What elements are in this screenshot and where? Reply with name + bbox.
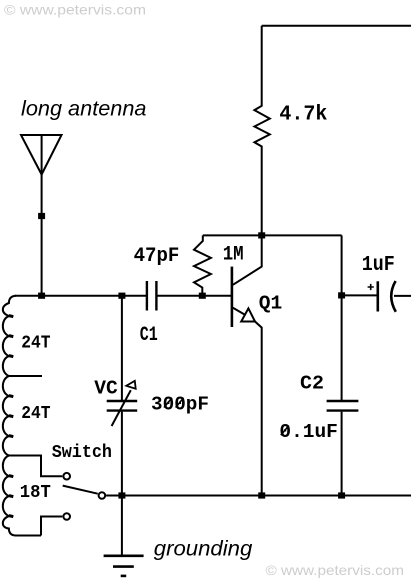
node antenna wire dot bbox=[38, 213, 45, 219]
svg-text:C2: C2 bbox=[300, 372, 324, 394]
svg-text:0.1uF: 0.1uF bbox=[279, 421, 338, 443]
svg-text:1uF: 1uF bbox=[362, 254, 395, 277]
svg-text:© www.petervis.com: © www.petervis.com bbox=[266, 562, 405, 578]
coil L1 bbox=[3, 296, 41, 536]
antenna bbox=[21, 135, 62, 296]
wire top rail bbox=[262, 25, 411, 27]
svg-text:18T: 18T bbox=[20, 483, 51, 503]
node C2 junction bbox=[338, 492, 345, 498]
svg-text:Q1: Q1 bbox=[259, 293, 283, 315]
switch blade bbox=[63, 486, 98, 494]
wire C2 branch vertical bbox=[341, 235, 343, 495]
wire collector node horizontal bbox=[203, 234, 342, 236]
capacitor C2 bbox=[327, 401, 359, 411]
svg-text:300pF: 300pF bbox=[151, 394, 209, 416]
svg-text:© www.petervis.com: © www.petervis.com bbox=[4, 2, 146, 18]
wire C1 to base bbox=[157, 295, 231, 297]
node antenna/coil junction bbox=[38, 293, 45, 299]
node 1M base junction bbox=[199, 293, 206, 299]
transistor Q1 bbox=[232, 235, 262, 495]
switch lower throw terminal bbox=[63, 513, 70, 520]
node ground junction bbox=[118, 492, 125, 498]
capacitor C1 bbox=[147, 281, 157, 311]
wire coil bottom to switch lower throw bbox=[41, 517, 62, 536]
node 1uF junction bbox=[338, 292, 345, 298]
resistor R1 4.7k bbox=[254, 26, 269, 236]
capacitor C3 1uF electrolytic bbox=[342, 281, 411, 312]
ground bbox=[104, 496, 144, 576]
wire tap B to switch upper throw bbox=[9, 456, 62, 477]
node emitter junction bbox=[258, 492, 265, 498]
node collector junction bbox=[258, 232, 265, 238]
wire bottom rail bbox=[106, 495, 411, 497]
switch common terminal bbox=[99, 492, 106, 499]
svg-text:4.7k: 4.7k bbox=[279, 104, 327, 127]
svg-text:long antenna: long antenna bbox=[21, 96, 147, 120]
resistor R2 1M bbox=[194, 235, 211, 295]
switch upper throw terminal bbox=[63, 473, 70, 480]
coil cusp nubs bbox=[9, 316, 13, 517]
wire tap A stub bbox=[9, 375, 42, 377]
svg-text:Switch: Switch bbox=[52, 443, 112, 463]
variable capacitor VC bbox=[107, 296, 138, 496]
svg-text:1M: 1M bbox=[223, 243, 244, 266]
node VC top junction bbox=[118, 293, 125, 299]
svg-text:C1: C1 bbox=[140, 324, 158, 347]
svg-text:grounding: grounding bbox=[154, 536, 253, 560]
wire base rail (coil top to C1) bbox=[15, 295, 147, 297]
svg-text:24T: 24T bbox=[21, 404, 50, 424]
slashes on zeros of 300pF bbox=[164, 398, 184, 408]
slash on zero of 0.1uF bbox=[281, 426, 289, 436]
svg-text:VC: VC bbox=[94, 377, 118, 399]
svg-text:24T: 24T bbox=[21, 334, 50, 354]
svg-text:47pF: 47pF bbox=[134, 245, 180, 268]
